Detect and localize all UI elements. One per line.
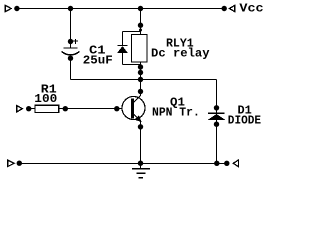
relay RLY1 pin dot top xyxy=(138,23,143,28)
junction bottom rail / emitter-ground xyxy=(138,161,143,166)
wire R1 to base xyxy=(59,108,132,110)
label 100 xyxy=(34,92,57,106)
transistor Q1 xyxy=(122,89,145,130)
wire collector horizontal rail xyxy=(71,79,217,81)
wire relay diode bottom stub xyxy=(123,64,141,66)
resistor R1 pin dot right xyxy=(63,106,68,111)
input terminal (bottom left) xyxy=(8,160,22,166)
label Q1 xyxy=(170,95,185,109)
input terminal (top left) xyxy=(5,5,19,11)
diode D1 xyxy=(208,105,226,127)
label R1 xyxy=(41,83,57,97)
junction bottom rail / D1 xyxy=(214,161,219,166)
relay RLY1 pin dot bottom xyxy=(138,64,143,75)
label NPN Tr. xyxy=(152,105,200,119)
wire relay branch vertical xyxy=(140,9,142,35)
svg-text:DIODE: DIODE xyxy=(228,114,261,128)
relay RLY1 coil box xyxy=(132,35,148,63)
wire relay diode top stub xyxy=(123,29,143,47)
output terminal (bottom right) xyxy=(224,160,238,167)
svg-text:100: 100 xyxy=(34,92,57,106)
input terminal (base, left) xyxy=(17,106,32,112)
ground xyxy=(132,163,150,177)
capacitor C1 xyxy=(62,39,80,61)
svg-text:25uF: 25uF xyxy=(83,54,113,68)
label DIODE xyxy=(228,114,261,128)
diode (flyback, inside RLY1) xyxy=(117,46,127,65)
label Dc relay xyxy=(151,46,210,60)
junction top rail / relay branch xyxy=(138,6,143,11)
wire terminal to R1 xyxy=(29,108,35,110)
wire emitter to ground rail xyxy=(140,121,142,163)
wire D1 branch vertical xyxy=(216,80,218,164)
label C1 xyxy=(89,43,106,57)
label 25uF xyxy=(83,54,113,68)
node Vcc terminal xyxy=(222,6,235,12)
wire top rail xyxy=(17,8,224,10)
wire C1 bottom down to collector rail xyxy=(70,58,72,80)
wire C1 branch from top rail xyxy=(70,9,72,49)
label Vcc xyxy=(239,1,263,15)
resistor R1 xyxy=(35,105,59,112)
transistor Q1 base pin dot xyxy=(114,106,119,111)
svg-text:Vcc: Vcc xyxy=(239,1,263,15)
junction collector rail / main vertical xyxy=(138,77,143,82)
wire bottom rail xyxy=(19,162,227,164)
label D1 xyxy=(238,104,252,118)
wire relay bottom to transistor collector xyxy=(140,62,142,96)
svg-text:NPN Tr.: NPN Tr. xyxy=(152,105,200,119)
svg-text:Dc relay: Dc relay xyxy=(151,46,210,60)
junction top rail / C1 branch xyxy=(68,6,73,11)
label RLY1 xyxy=(166,36,194,50)
